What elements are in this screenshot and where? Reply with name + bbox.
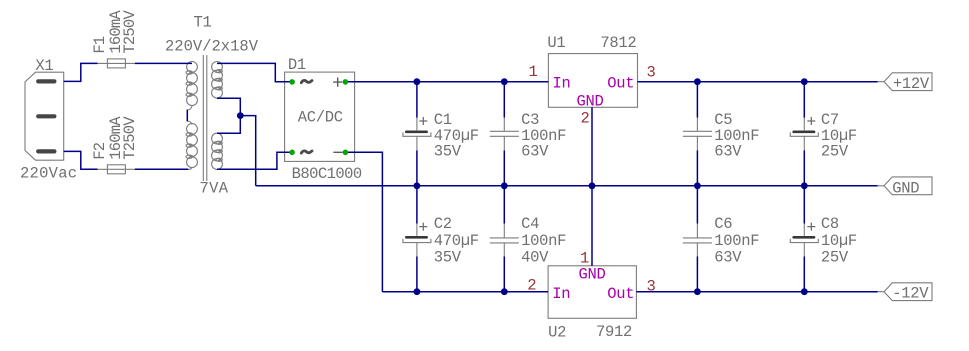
svg-text:100nF: 100nF <box>521 232 566 250</box>
svg-text:35V: 35V <box>434 143 462 161</box>
svg-text:T250V: T250V <box>121 10 139 54</box>
svg-text:In: In <box>553 75 571 93</box>
svg-text:7VA: 7VA <box>200 180 229 198</box>
svg-text:C2: C2 <box>434 215 452 233</box>
svg-text:GND: GND <box>892 179 919 197</box>
svg-text:40V: 40V <box>521 249 549 267</box>
svg-text:7912: 7912 <box>596 323 632 341</box>
svg-text:X1: X1 <box>35 57 53 75</box>
svg-text:-12V: -12V <box>892 285 929 303</box>
svg-text:470µF: 470µF <box>434 232 479 250</box>
svg-text:Out: Out <box>607 285 634 303</box>
svg-text:1: 1 <box>528 63 537 81</box>
svg-text:Out: Out <box>607 75 634 93</box>
svg-text:3: 3 <box>647 278 656 296</box>
svg-text:C4: C4 <box>521 215 539 233</box>
svg-text:U2: U2 <box>548 323 566 341</box>
svg-text:D1: D1 <box>288 56 306 74</box>
svg-text:T250V: T250V <box>121 116 139 160</box>
svg-text:1: 1 <box>580 249 589 267</box>
svg-text:220V/2x18V: 220V/2x18V <box>165 38 259 56</box>
svg-text:63V: 63V <box>521 143 549 161</box>
svg-text:25V: 25V <box>821 249 849 267</box>
svg-text:35V: 35V <box>434 249 462 267</box>
svg-text:63V: 63V <box>714 249 742 267</box>
svg-text:63V: 63V <box>714 143 742 161</box>
svg-text:2: 2 <box>527 277 536 295</box>
svg-text:+12V: +12V <box>893 75 930 93</box>
svg-text:B80C1000: B80C1000 <box>292 165 362 183</box>
svg-text:C6: C6 <box>714 215 732 233</box>
svg-text:7812: 7812 <box>600 34 636 52</box>
svg-text:3: 3 <box>647 64 656 82</box>
svg-text:T1: T1 <box>194 14 212 32</box>
svg-text:10µF: 10µF <box>821 232 857 250</box>
svg-text:GND: GND <box>577 92 604 110</box>
svg-text:2: 2 <box>580 110 589 128</box>
svg-text:U1: U1 <box>547 34 565 52</box>
svg-text:220Vac: 220Vac <box>20 165 77 183</box>
svg-text:100nF: 100nF <box>714 232 759 250</box>
svg-text:GND: GND <box>579 265 606 283</box>
svg-text:C8: C8 <box>821 215 839 233</box>
svg-text:In: In <box>552 285 570 303</box>
svg-text:25V: 25V <box>821 143 849 161</box>
svg-text:AC/DC: AC/DC <box>298 109 343 127</box>
